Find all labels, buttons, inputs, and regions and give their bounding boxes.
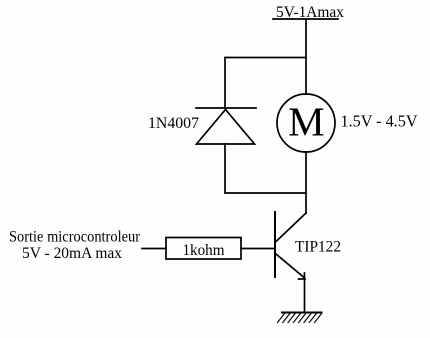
label 1kohm: [183, 240, 225, 259]
wire motor bottom to collector: [305, 152, 307, 213]
transistor Q1 TIP122: [275, 212, 306, 279]
svg-text:1kohm: 1kohm: [183, 240, 225, 259]
svg-text:Sortie microcontroleur: Sortie microcontroleur: [9, 229, 141, 246]
svg-text:1N4007: 1N4007: [148, 115, 199, 132]
label 5V-1Amax: [276, 4, 344, 21]
svg-text:5V-1Amax: 5V-1Amax: [276, 4, 344, 21]
wire diode anode to junction B: [225, 144, 306, 193]
svg-text:M: M: [288, 98, 324, 144]
resistor R1 1kohm: [166, 238, 241, 260]
label TIP122: [295, 239, 341, 256]
label 5V - 20mA max: [22, 245, 122, 262]
wire microcontroller output to resistor: [142, 248, 166, 250]
svg-text:5V - 20mA max: 5V - 20mA max: [22, 245, 122, 262]
svg-text:TIP122: TIP122: [295, 239, 341, 256]
diode D1 1N4007: [196, 108, 256, 144]
wire resistor to base: [241, 248, 275, 250]
ground: [278, 313, 322, 323]
label Sortie microcontroleur: [9, 229, 141, 246]
wire junction A to motor top: [305, 58, 307, 95]
wire supply to junction A: [305, 19, 307, 58]
motor letter M: [288, 98, 324, 144]
label 1.5V - 4.5V: [341, 112, 418, 131]
label 1N4007: [148, 115, 199, 132]
motor M1: [277, 94, 335, 152]
node 5V supply bar: [273, 18, 338, 20]
wire junction A to diode branch: [225, 58, 306, 109]
svg-text:1.5V - 4.5V: 1.5V - 4.5V: [341, 112, 418, 131]
wire emitter to ground: [304, 273, 306, 312]
